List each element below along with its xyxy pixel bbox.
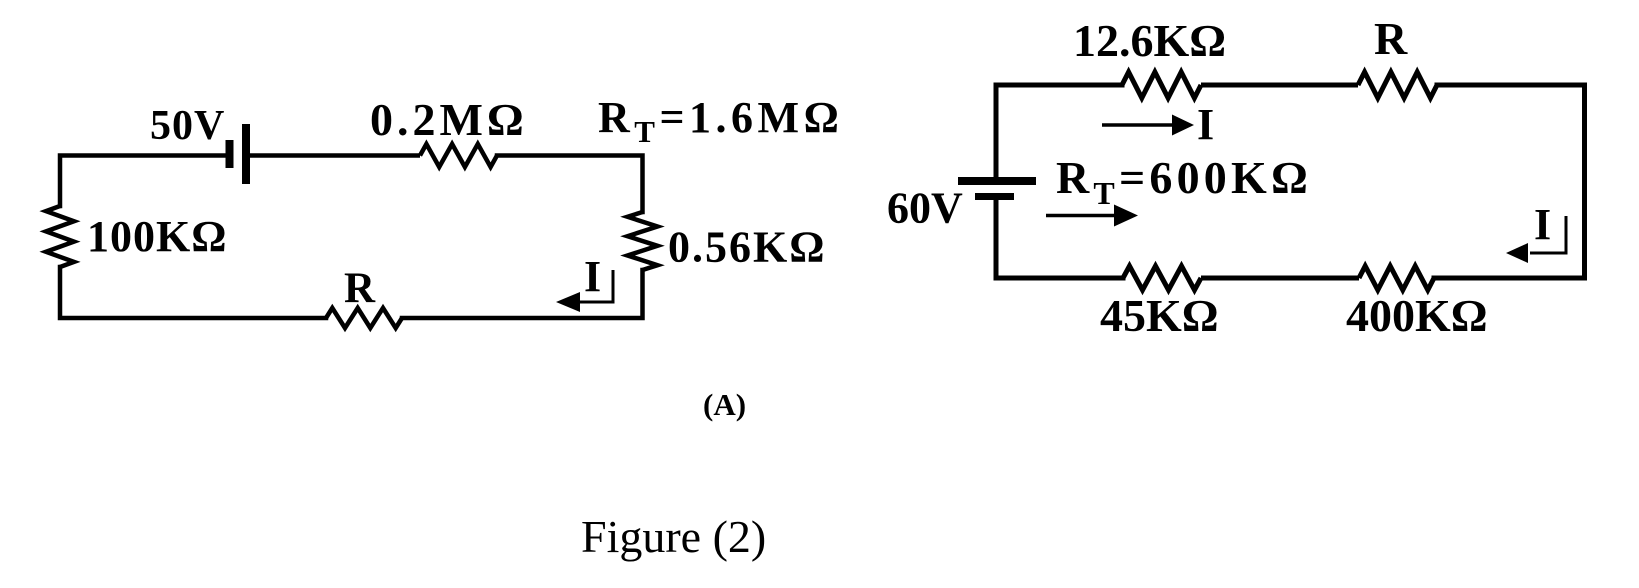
svg-text:R: R	[344, 265, 376, 312]
wire: circuit B top middle segment	[1201, 83, 1358, 88]
current arrow I (circuit A): L-shaped with left arrowhead	[577, 270, 613, 302]
wire: circuit A top right segment + right wire upper	[497, 156, 643, 213]
wire: circuit A bottom right segment + right wire lower	[402, 270, 643, 318]
svg-text:(A): (A)	[703, 387, 746, 422]
wire: circuit B top right + right wire	[1434, 85, 1585, 278]
svg-text:RT=600KΩ: RT=600KΩ	[1056, 152, 1312, 211]
wire: circuit A top middle segment	[250, 153, 420, 158]
wire: circuit A top-left segment	[60, 156, 226, 207]
resistor 0.56K ohm vertical zigzag	[628, 212, 658, 270]
resistor 12.6K ohm zigzag	[1122, 72, 1201, 98]
battery 50V long bar (positive)	[242, 124, 250, 184]
wire: circuit A left lower + bottom left segment	[60, 267, 326, 318]
svg-text:12.6KΩ: 12.6KΩ	[1073, 15, 1226, 66]
wire: circuit B top-left corner + left wire upper	[996, 85, 1122, 177]
svg-text:I: I	[1534, 200, 1551, 249]
svg-text:0.56KΩ: 0.56KΩ	[668, 223, 826, 272]
svg-text:RT=1.6MΩ: RT=1.6MΩ	[598, 93, 843, 149]
wire: circuit B left wire lower	[996, 200, 1123, 278]
wire: circuit B bottom middle segment	[1201, 276, 1359, 281]
svg-text:I: I	[584, 252, 601, 301]
svg-text:100KΩ: 100KΩ	[87, 212, 227, 261]
resistor 100K ohm vertical zigzag	[46, 206, 74, 267]
svg-text:60V: 60V	[887, 184, 963, 233]
resistor R (bottom) zigzag	[326, 308, 402, 328]
battery 60V short bar (negative)	[975, 193, 1014, 200]
current arrow I (circuit B top): right arrow	[1102, 123, 1176, 127]
svg-text:45KΩ: 45KΩ	[1100, 290, 1219, 341]
svg-text:50V: 50V	[150, 103, 225, 149]
svg-text:0.2MΩ: 0.2MΩ	[370, 94, 528, 145]
svg-text:400KΩ: 400KΩ	[1346, 290, 1488, 341]
resistor 0.2M ohm zigzag	[420, 144, 497, 167]
svg-text:R: R	[1374, 13, 1408, 64]
resistor 45K ohm zigzag	[1123, 266, 1201, 290]
arrow under RT (pointing right)	[1046, 214, 1116, 218]
current arrow I (circuit B bottom right): L-shaped with left arrowhead	[1530, 216, 1566, 253]
resistor 400K ohm zigzag	[1359, 266, 1434, 290]
resistor R (circuit B) zigzag	[1358, 72, 1437, 98]
svg-text:Figure (2): Figure (2)	[581, 511, 766, 562]
battery 60V long bar (positive)	[958, 177, 1036, 185]
battery 50V short bar (negative)	[226, 140, 234, 168]
svg-text:I: I	[1197, 100, 1214, 149]
